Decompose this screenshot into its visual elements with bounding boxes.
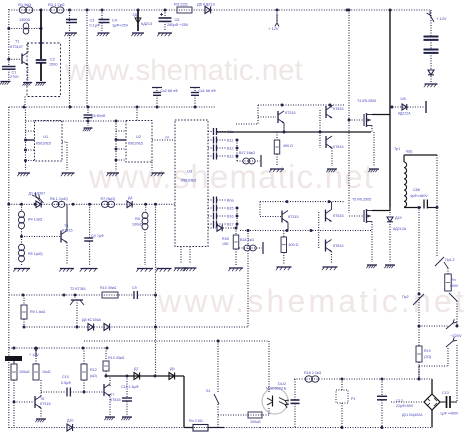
svg-text:R8: R8 [135,217,140,221]
svg-text:В17 16кΩ: В17 16кΩ [239,151,255,155]
svg-text:Т2 КТ361: Т2 КТ361 [70,287,86,291]
svg-text:К561ИЕ8: К561ИЕ8 [181,179,196,183]
svg-text:С10: С10 [62,375,69,379]
svg-text:В18 1кΩ: В18 1кΩ [240,238,254,242]
svg-text:1µФ ×450V: 1µФ ×450V [440,412,459,416]
svg-text:www.shematic.net: www.shematic.net [64,54,303,87]
svg-text:Т6: Т6 [40,397,44,401]
svg-text:R19: R19 [424,349,431,353]
svg-text:В12: В12 [227,147,234,151]
svg-text:С8К: С8К [413,188,421,192]
svg-text:Впа: Впа [227,199,234,203]
svg-text:14: 14 [165,136,169,140]
svg-text:КД212А: КД212А [398,112,411,116]
svg-text:R9 1.6кΩ: R9 1.6кΩ [30,310,45,314]
svg-text:С11 1.5µФ: С11 1.5µФ [121,385,139,389]
svg-text:Rн 2.5Ω: Rн 2.5Ω [189,419,203,423]
svg-text:КТ815: КТ815 [333,107,344,111]
svg-text:КТ315: КТ315 [40,402,51,406]
svg-text:R5 1(кΩ): R5 1(кΩ) [28,252,43,256]
svg-text:S1: S1 [206,389,211,393]
svg-text:В15: В15 [227,207,234,211]
svg-text:R13 43кΩ: R13 43кΩ [108,356,125,360]
svg-text:DU2: DU2 [278,381,287,386]
svg-text:R12: R12 [90,368,97,372]
svg-text:К561ЛЕ5: К561ЛЕ5 [128,142,143,146]
svg-text:Т4 IRL2505: Т4 IRL2505 [357,99,376,103]
svg-text:Р1: Р1 [351,397,356,401]
svg-text:1500: 1500 [49,63,57,67]
svg-text:100кΩ: 100кΩ [132,223,143,227]
svg-text:R3 22Ω: R3 22Ω [174,2,188,7]
svg-text:(2Ω): (2Ω) [424,355,431,359]
svg-text:Т1: Т1 [15,40,19,44]
svg-text:2700: 2700 [10,75,18,79]
svg-text:www.shematic.net: www.shematic.net [157,283,467,319]
svg-text:Т5 IRL2505: Т5 IRL2505 [352,198,371,202]
svg-text:1µФ×25V: 1µФ×25V [112,24,129,28]
svg-text:С2: С2 [50,58,55,62]
svg-text:R4 13кΩ: R4 13кΩ [28,218,42,222]
svg-text:К561ЛЕ5: К561ЛЕ5 [36,142,51,146]
svg-text:КТ3107: КТ3107 [10,45,23,49]
svg-text:R2 1.7кΩ: R2 1.7кΩ [48,2,65,7]
svg-text:1300Ω: 1300Ω [19,18,30,22]
svg-text:В13: В13 [227,155,234,159]
svg-text:КД213: КД213 [141,22,152,26]
svg-text:Т7: Т7 [110,393,114,397]
svg-text:С4: С4 [112,19,117,23]
svg-text:0.5µФ: 0.5µФ [61,381,71,385]
svg-text:400 Ω: 400 Ω [289,243,299,247]
svg-text:U3: U3 [187,169,193,174]
svg-text:0.1µФ: 0.1µФ [90,24,100,28]
svg-text:Д4: Д4 [128,196,133,200]
svg-text:4µФ×480V: 4µФ×480V [410,194,428,198]
svg-text:Д19: Д19 [395,216,402,220]
svg-text:600V: 600V [450,284,459,288]
svg-text:490 Ω: 490 Ω [283,144,293,148]
svg-text:С5: С5 [175,18,180,22]
svg-text:С13: С13 [442,391,449,395]
svg-text:~220V: ~220V [450,333,462,338]
svg-text:Д9: Д9 [170,367,175,371]
svg-text:Ск2 68 нФ: Ск2 68 нФ [161,89,179,93]
svg-text:С3: С3 [90,19,95,23]
svg-text:КД212А: КД212А [393,227,407,231]
svg-text:Пр2: Пр2 [402,295,409,299]
svg-text:В17: В17 [227,223,234,227]
svg-text:U2: U2 [136,134,142,139]
svg-text:Д6 КД213: Д6 КД213 [197,2,216,7]
svg-text:R1 9кΩ: R1 9кΩ [18,2,31,7]
svg-text:КТ315: КТ315 [288,215,299,219]
svg-text:10кΩ: 10кΩ [42,370,51,374]
svg-text:U1: U1 [43,134,49,139]
svg-text:С9: С9 [132,286,137,290]
svg-text:+ 12V: + 12V [436,16,447,21]
svg-text:Д21 КЦ402А: Д21 КЦ402А [402,413,423,417]
svg-text:Тр1: Тр1 [394,147,400,151]
svg-text:(кΩ): (кΩ) [90,374,97,378]
svg-text:19Ω: 19Ω [222,242,229,246]
svg-text:Rн: Rн [451,278,456,282]
svg-text:+ 12V: + 12V [268,26,279,31]
svg-text:КТ814: КТ814 [333,145,344,149]
svg-text:Ск1 68 нФ: Ск1 68 нФ [199,89,217,93]
svg-text:Д7: Д7 [134,367,139,371]
svg-text:100кΩ: 100кΩ [250,420,261,424]
svg-text:R7 (5кΩ): R7 (5кΩ) [101,197,116,201]
svg-text:100: 100 [400,97,406,101]
svg-text:Пр1.2: Пр1.2 [445,258,455,262]
svg-text:R1В: R1В [222,237,229,241]
svg-text:Т3: Т3 [64,224,68,228]
svg-text:R10 39кΩ: R10 39кΩ [100,286,117,290]
svg-text:22µФ×50V: 22µФ×50V [396,404,414,408]
svg-text:В16: В16 [227,215,234,219]
svg-text:С6 60нФ: С6 60нФ [91,114,106,118]
svg-text:R6 1.1(кΩ): R6 1.1(кΩ) [50,197,68,201]
svg-text:Д8 КС156А: Д8 КС156А [82,318,101,322]
svg-text:С4 7µФ: С4 7µФ [91,234,104,238]
svg-text:www.shematic.net: www.shematic.net [88,158,374,195]
svg-text:Д1 АЛ307: Д1 АЛ307 [29,192,46,196]
svg-text:КТ815: КТ815 [110,398,121,402]
svg-text:2Д: 2Д [133,13,138,17]
svg-text:КТ315: КТ315 [285,111,296,115]
svg-text:100кΩ: 100кΩ [19,370,30,374]
svg-text:С1: С1 [12,71,17,75]
svg-text:Д10: Д10 [67,419,73,423]
svg-text:R16 2.2кΩ: R16 2.2кΩ [304,371,322,375]
svg-text:КТ815: КТ815 [333,214,344,218]
svg-text:КТ814: КТ814 [333,244,344,248]
svg-text:Кф1: Кф1 [406,150,413,154]
svg-text:280µФ +25V: 280µФ +25V [167,23,189,27]
svg-text:+ 12V: + 12V [29,353,39,357]
svg-text:В11: В11 [227,139,233,143]
